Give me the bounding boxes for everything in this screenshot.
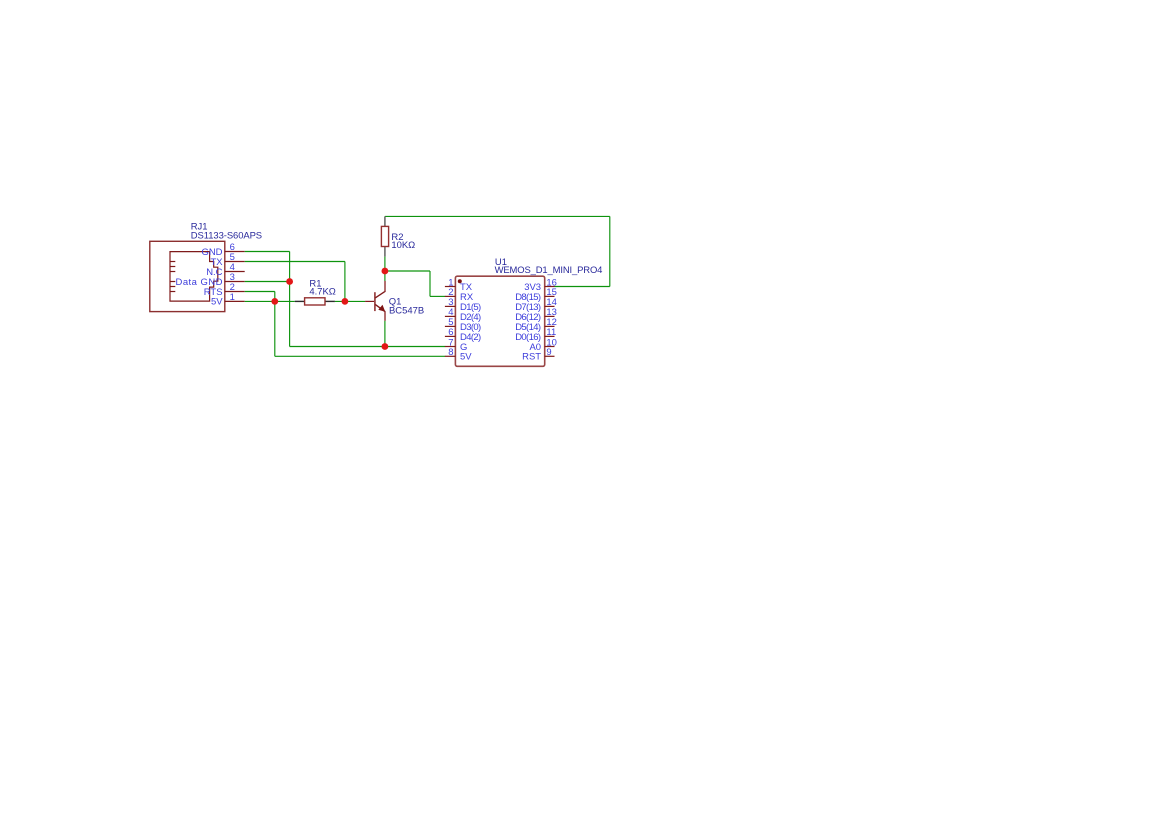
U1 pin 11 D0(16) (515, 327, 556, 343)
U1 pin 14 D7(13) (515, 297, 557, 313)
wire 5V rail (275, 355, 445, 357)
resistor R1 (295, 278, 336, 305)
wire GND row (245, 251, 290, 253)
U1 pin 2 RX (445, 287, 474, 303)
junction emitter/ground rail (382, 343, 389, 350)
svg-text:10KΩ: 10KΩ (391, 240, 415, 251)
RJ1 pin 2 RTS (204, 282, 245, 298)
wire TX row (245, 261, 345, 263)
wire Data GND row (245, 281, 290, 283)
transistor Q1 (365, 281, 424, 321)
wire emitter to rail (384, 321, 386, 347)
U1 pin 8 5V (445, 347, 472, 363)
connector RJ1 outer box (150, 241, 225, 311)
wire RTS vertical (274, 292, 276, 357)
resistor R2 (381, 216, 415, 256)
connector RJ1 jack symbol (170, 252, 218, 302)
svg-text:RST: RST (522, 352, 541, 363)
svg-text:WEMOS_D1_MINI_PRO4: WEMOS_D1_MINI_PRO4 (495, 265, 603, 276)
U1 pin 5 D3(0) (445, 317, 481, 333)
U1 pin 12 D5(14) (515, 317, 557, 333)
U1 pin1 marker dot (458, 279, 462, 283)
RJ1 pin 6 GND (202, 242, 245, 258)
RJ1 pin 4 N.C (206, 262, 244, 278)
wire RX horizontal (430, 295, 445, 297)
wire 5V row left (245, 300, 295, 302)
wire node to RX corner (385, 270, 430, 272)
wire R2 bottom to collector (384, 257, 386, 281)
wire ground rail (290, 346, 446, 348)
svg-text:BC547B: BC547B (389, 306, 424, 317)
wire top horizontal (385, 215, 610, 217)
U1 pin 4 D2(4) (445, 307, 481, 323)
svg-text:5V: 5V (211, 297, 223, 308)
RJ1 pin 3 Data GND (176, 272, 245, 288)
U1 pin 3 D1(5) (445, 297, 481, 313)
svg-text:4.7KΩ: 4.7KΩ (309, 287, 335, 298)
RJ1 pin 1 5V (211, 292, 245, 308)
U1 pin 1 TX (445, 277, 473, 293)
U1 pin 6 D4(2) (445, 327, 481, 343)
wire right vertical (609, 216, 611, 286)
U1 pin 10 A0 (529, 337, 556, 353)
wire 3V3 (555, 286, 610, 288)
svg-text:DS1133-S60APS: DS1133-S60APS (191, 231, 262, 242)
U1 pin 7 G (445, 337, 467, 353)
IC U1 box (455, 276, 544, 366)
U1 pin 15 D8(15) (515, 287, 557, 303)
U1 pin 13 D6(12) (515, 307, 557, 323)
junction collector node (382, 268, 389, 275)
U1 pin 16 3V3 (524, 277, 557, 293)
wire GND vertical (289, 252, 291, 347)
wire RX vertical (429, 271, 431, 296)
junction RTS/5V (271, 298, 278, 305)
wire RTS row (245, 291, 275, 293)
junction R1/TX node (342, 298, 349, 305)
svg-text:5V: 5V (460, 352, 472, 363)
svg-text:9: 9 (546, 347, 551, 358)
wire TX vertical (344, 262, 346, 302)
U1 pin 9 RST (522, 347, 554, 363)
junction GND/DataGND (286, 278, 293, 285)
wire R1 out to base (335, 300, 365, 302)
svg-text:1: 1 (230, 292, 235, 303)
RJ1 pin 5 TX (210, 252, 244, 268)
svg-text:8: 8 (448, 347, 453, 358)
